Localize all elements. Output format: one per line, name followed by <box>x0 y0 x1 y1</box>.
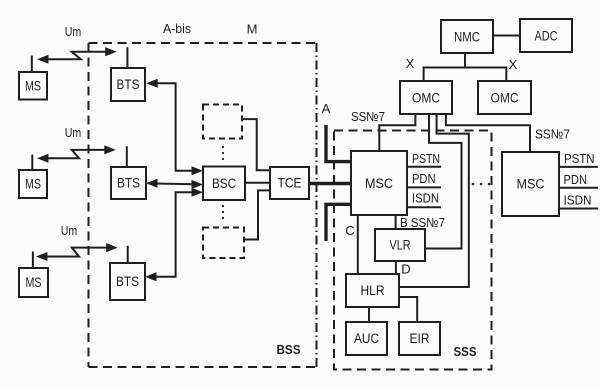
BTS2 antenna <box>126 146 128 167</box>
thick A-interface upper bracket <box>326 125 351 162</box>
svg-text:SS№7: SS№7 <box>535 127 570 142</box>
PDN line MSC1 <box>407 186 441 188</box>
PSTN line MSC2 <box>559 166 598 168</box>
wire BSC to TCE <box>245 182 270 184</box>
wire upper dashed box to TCE <box>242 119 270 170</box>
svg-text:MS: MS <box>26 275 42 290</box>
svg-text:MS: MS <box>25 79 41 94</box>
svg-text:VLR: VLR <box>390 238 411 253</box>
svg-text:A: A <box>322 101 331 116</box>
thick A-interface trunk TCE to MSC <box>309 182 351 185</box>
MS box MS2 <box>19 170 47 198</box>
svg-text:B SS№7: B SS№7 <box>400 215 445 230</box>
svg-text:BSC: BSC <box>212 176 236 191</box>
wire NMC to ADC <box>493 35 520 37</box>
OMC box OMC1 <box>400 81 452 114</box>
MS box MS3 <box>19 268 48 297</box>
svg-text:X: X <box>509 57 518 72</box>
dashed future-BSC box upper <box>203 105 242 139</box>
wire HLR to EIR <box>399 297 417 322</box>
svg-text:Um: Um <box>65 126 82 140</box>
wire OMC1 to MSC1 <box>379 114 415 151</box>
MS3 antenna <box>32 252 34 269</box>
wire HLR to AUC <box>368 307 370 322</box>
svg-text:OMC: OMC <box>491 91 519 106</box>
wire BTS1 to BSC <box>146 79 203 176</box>
svg-text:HLR: HLR <box>361 283 385 298</box>
svg-text:BTS: BTS <box>116 274 139 289</box>
ellipsis dots between SSS and MSC2 <box>472 183 491 186</box>
svg-text:BTS: BTS <box>117 176 140 191</box>
HLR box <box>346 274 399 307</box>
svg-text:NMC: NMC <box>454 30 480 45</box>
NMC box <box>441 20 493 53</box>
dots between BSC and lower dashed box <box>222 205 224 219</box>
svg-text:PDN: PDN <box>412 171 436 186</box>
PDN line MSC2 <box>559 187 598 189</box>
svg-text:PSTN: PSTN <box>564 151 595 166</box>
wire OMC1 to MSC2 <box>446 114 530 152</box>
SSS dashed region border <box>334 131 492 370</box>
wire BTS3 to BSC <box>145 188 203 281</box>
svg-text:MS: MS <box>25 177 41 192</box>
BSS dashed region border <box>89 43 317 367</box>
wire lower dashed box to TCE <box>244 190 270 239</box>
svg-text:MSC: MSC <box>365 176 393 191</box>
BTS3 antenna <box>127 246 129 263</box>
svg-text:ISDN: ISDN <box>564 193 592 208</box>
BTS box BTS1 <box>111 68 145 101</box>
svg-text:AUC: AUC <box>354 331 379 346</box>
BTS box BTS3 <box>110 263 145 300</box>
PSTN line MSC1 <box>407 166 441 168</box>
BTS box BTS2 <box>111 167 146 199</box>
MS1 antenna <box>31 56 33 73</box>
thick A-interface lower bracket <box>326 204 351 241</box>
svg-text:D: D <box>401 262 410 277</box>
svg-text:M: M <box>247 22 258 37</box>
svg-text:EIR: EIR <box>410 331 430 346</box>
wire BTS2 to BSC <box>146 179 203 189</box>
MS box MS1 <box>19 72 47 100</box>
svg-text:ADC: ADC <box>535 29 558 44</box>
svg-text:PDN: PDN <box>564 172 588 187</box>
wire OMC1 to VLR <box>425 114 462 249</box>
svg-text:TCE: TCE <box>278 176 302 191</box>
BTS1 antenna <box>126 47 128 68</box>
MS2 antenna <box>31 155 33 171</box>
svg-text:OMC: OMC <box>412 91 440 106</box>
X distribution bar <box>424 68 507 82</box>
svg-text:BSS: BSS <box>277 343 301 357</box>
dots between BSC and upper dashed box <box>222 146 224 160</box>
svg-text:SSS: SSS <box>454 345 477 359</box>
D interface wire VLR to HLR <box>395 261 397 274</box>
dashed future-BSC box lower <box>203 228 244 259</box>
ADC box <box>520 19 572 52</box>
svg-text:X: X <box>406 56 415 71</box>
Um radio link zigzag arrow 2 <box>37 145 116 162</box>
svg-text:SS№7: SS№7 <box>351 109 385 124</box>
svg-text:ISDN: ISDN <box>412 191 439 206</box>
svg-text:PSTN: PSTN <box>412 151 440 166</box>
ISDN line MSC1 <box>407 206 441 208</box>
OMC box OMC2 <box>478 81 531 114</box>
svg-text:C: C <box>345 223 354 238</box>
svg-text:MSC: MSC <box>517 177 545 192</box>
BSC box <box>203 167 245 201</box>
MSC box MSC2 <box>502 152 559 216</box>
Um radio link zigzag arrow 1 <box>37 47 117 64</box>
EIR box <box>399 322 440 355</box>
svg-text:Um: Um <box>65 25 82 39</box>
AUC box <box>346 322 387 355</box>
VLR box <box>375 229 425 261</box>
labels <box>61 25 82 238</box>
Um radio link zigzag arrow 3 <box>36 243 118 261</box>
svg-text:Um: Um <box>61 224 78 238</box>
ISDN line MSC2 <box>559 208 598 210</box>
B interface wire MSC to VLR <box>395 215 397 229</box>
wire OMC1 to HLR <box>399 114 469 287</box>
C interface wire MSC to HLR <box>357 215 359 274</box>
MSC box MSC1 <box>351 151 407 215</box>
wire NMC down to X bar <box>464 53 466 68</box>
TCE box <box>270 167 309 199</box>
svg-text:BTS: BTS <box>117 77 140 92</box>
svg-text:A-bis: A-bis <box>163 21 191 36</box>
